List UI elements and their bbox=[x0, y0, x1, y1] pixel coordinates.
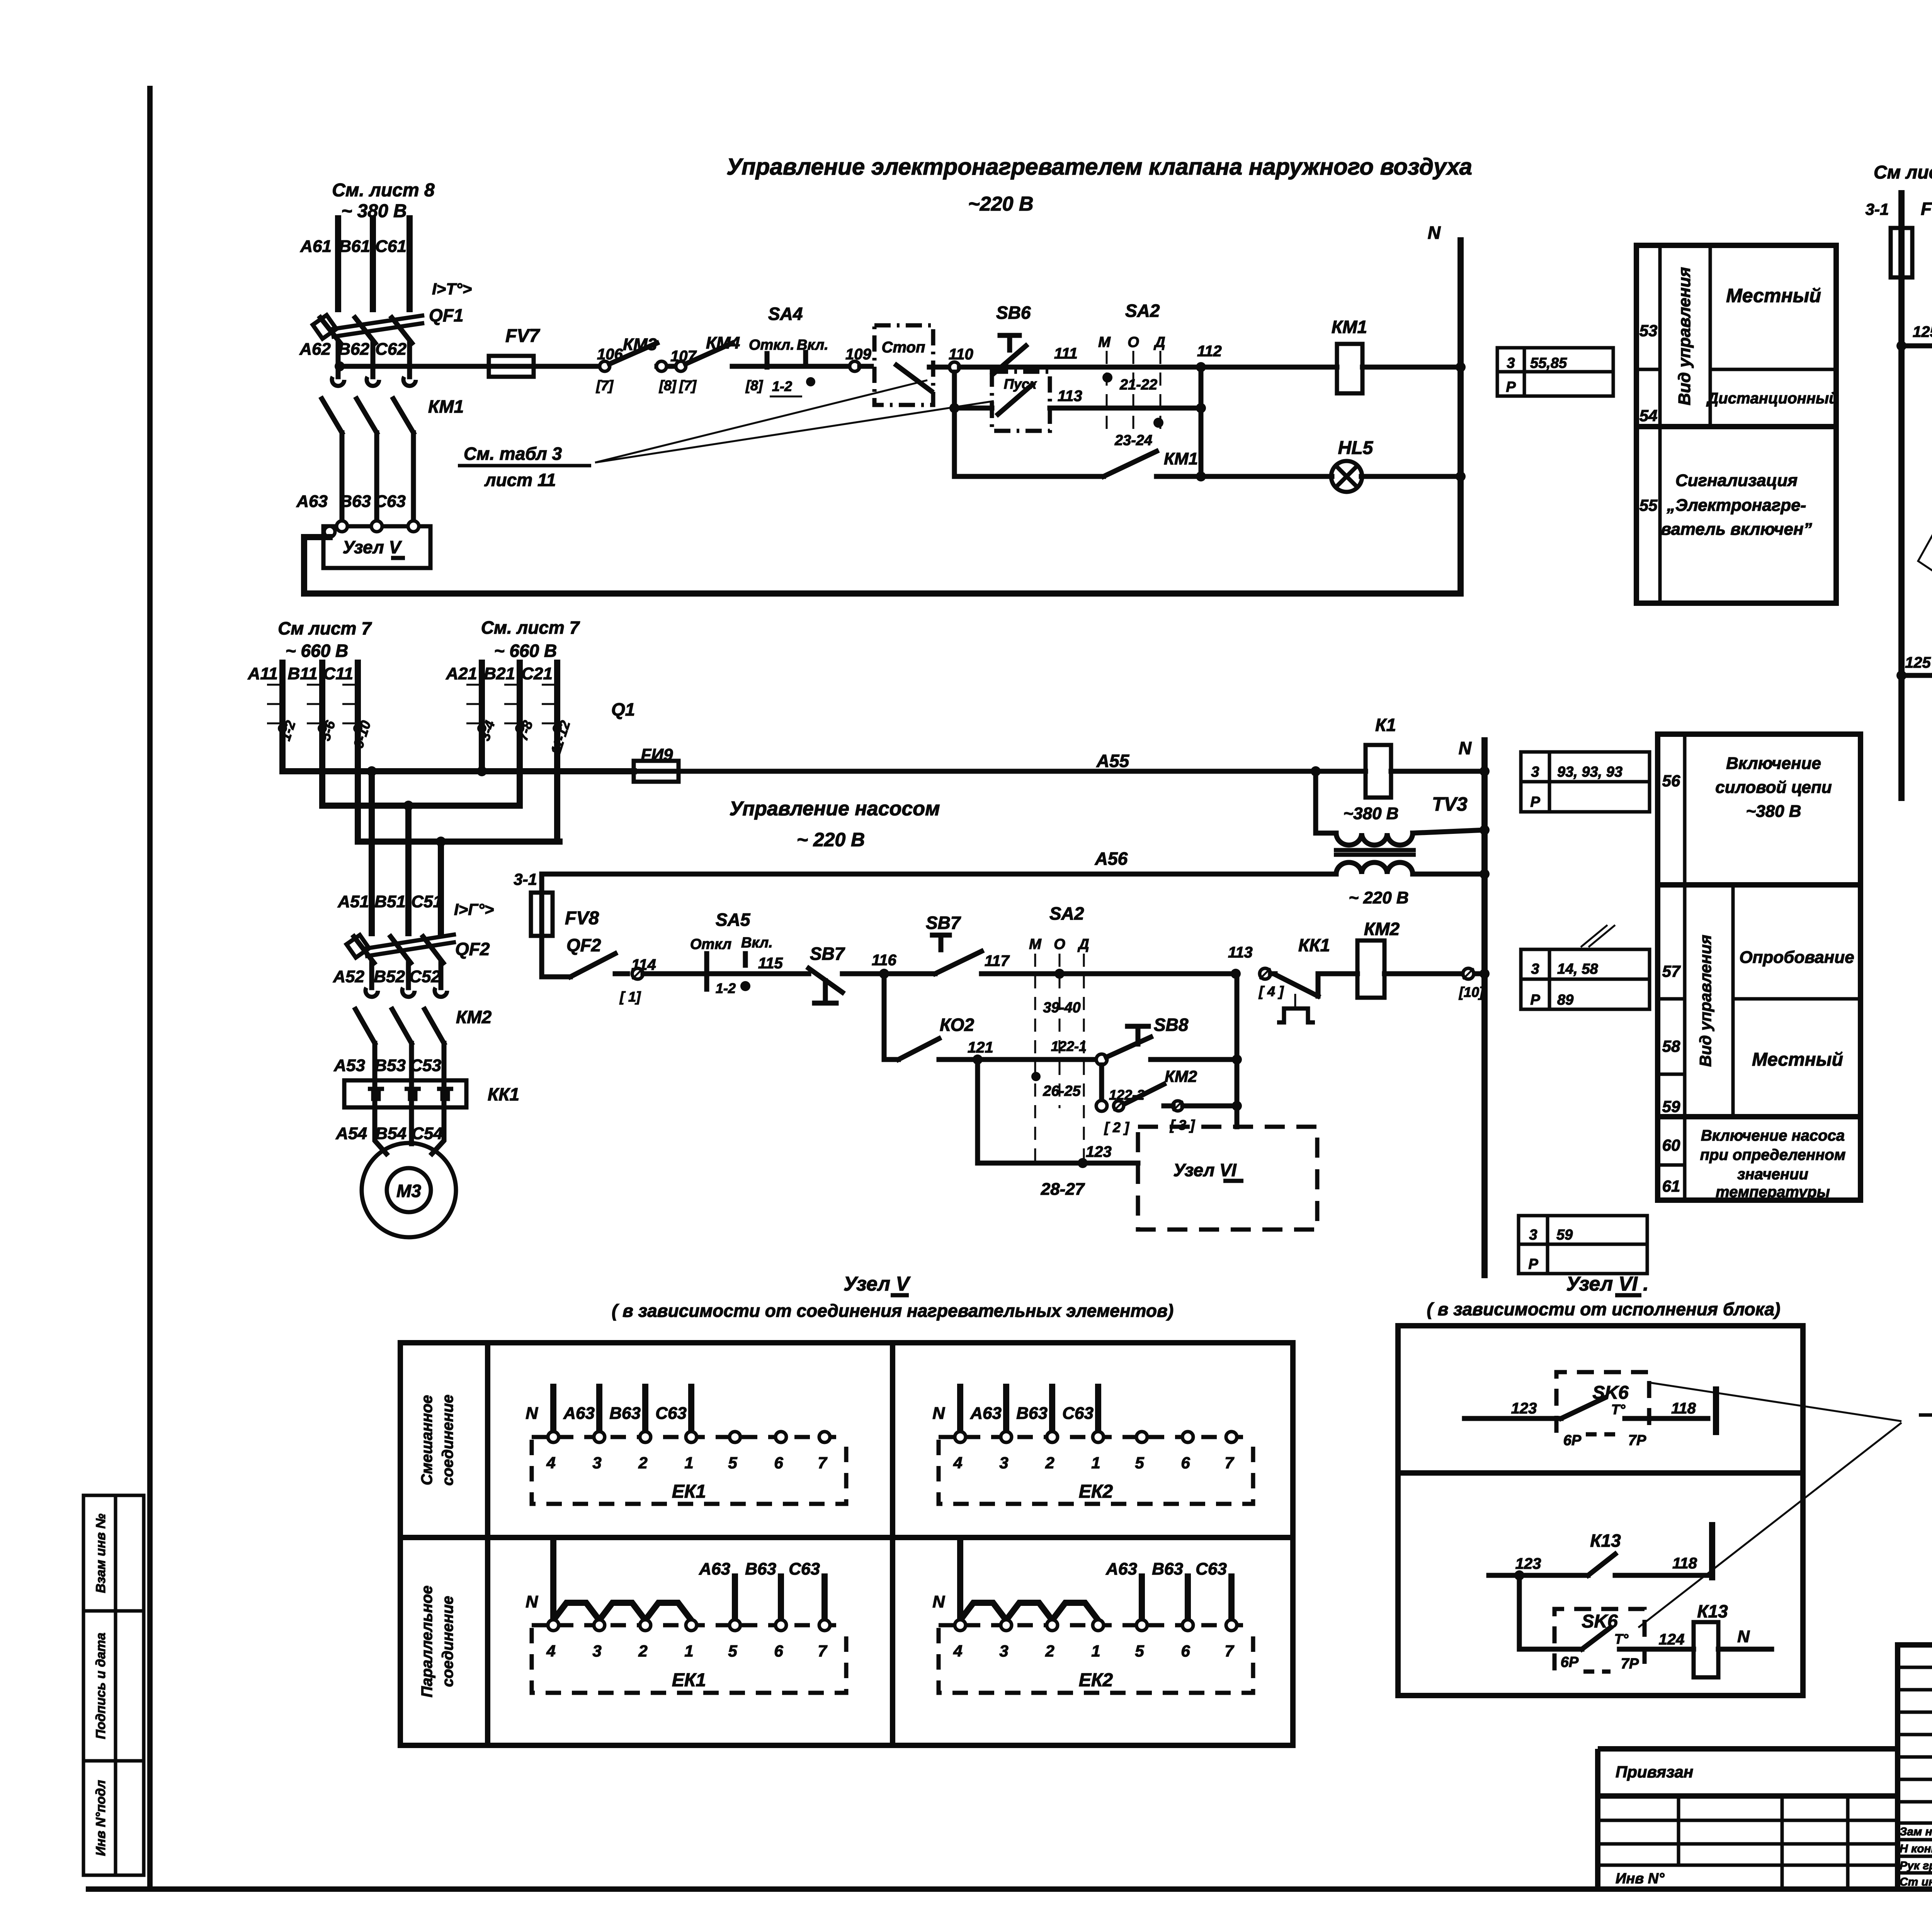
svg-text:~ 660 В: ~ 660 В bbox=[494, 641, 557, 661]
svg-text:С63: С63 bbox=[789, 1560, 820, 1578]
callout line upper bbox=[1649, 1383, 1901, 1421]
svg-text:Q1: Q1 bbox=[611, 699, 635, 719]
svg-text:118: 118 bbox=[1671, 1400, 1696, 1417]
svg-text:[ 4 ]: [ 4 ] bbox=[1259, 983, 1284, 999]
svg-text:5: 5 bbox=[728, 1454, 737, 1472]
svg-text:Р: Р bbox=[1528, 1256, 1538, 1272]
margin stamp box bbox=[83, 1495, 144, 1875]
wire 123 bbox=[975, 1060, 980, 1163]
SA2 contact 23-24 bbox=[1153, 418, 1163, 428]
svg-text:4: 4 bbox=[546, 1454, 555, 1472]
svg-text:121: 121 bbox=[968, 1039, 993, 1056]
svg-text:55: 55 bbox=[1639, 496, 1658, 514]
node 125 lower bbox=[1896, 670, 1906, 680]
svg-text:3: 3 bbox=[1531, 961, 1539, 977]
heater ЕК2 mixed terminal row bbox=[939, 1435, 1253, 1439]
svg-text:[8]: [8] bbox=[659, 378, 677, 393]
svg-text:3: 3 bbox=[999, 1454, 1008, 1472]
svg-text:КМ4: КМ4 bbox=[706, 333, 740, 352]
svg-text:КМ1: КМ1 bbox=[1332, 317, 1367, 337]
svg-text:Узел VI .: Узел VI . bbox=[1566, 1273, 1648, 1295]
svg-text:В52: В52 bbox=[374, 967, 405, 986]
Q1 pole А11 bbox=[279, 663, 286, 771]
motor M3 bbox=[375, 1107, 386, 1154]
svg-text:Откл.: Откл. bbox=[749, 337, 794, 353]
svg-text:Включение: Включение bbox=[1726, 754, 1821, 773]
svg-text:Включение насоса: Включение насоса bbox=[1701, 1127, 1845, 1144]
svg-text:3-1: 3-1 bbox=[1866, 200, 1889, 218]
feed bus right bbox=[1898, 193, 1905, 798]
lamp HL5 bbox=[1201, 474, 1332, 479]
svg-text:N: N bbox=[932, 1404, 945, 1423]
svg-text:А52: А52 bbox=[333, 967, 364, 986]
svg-text:Стоп: Стоп bbox=[882, 339, 925, 356]
svg-text:21-22: 21-22 bbox=[1119, 377, 1157, 393]
svg-text:3: 3 bbox=[999, 1642, 1008, 1660]
svg-text:В54: В54 bbox=[375, 1124, 406, 1143]
node 125 upper bbox=[1896, 341, 1906, 351]
svg-text:SA5: SA5 bbox=[716, 910, 751, 930]
svg-text:N: N bbox=[526, 1592, 538, 1611]
node V box bbox=[323, 526, 430, 568]
svg-text:Дистанционный: Дистанционный bbox=[1706, 390, 1838, 407]
svg-text:26-25: 26-25 bbox=[1043, 1083, 1081, 1099]
relay coil K1 bbox=[1366, 745, 1391, 798]
узел V table bbox=[400, 1343, 1293, 1745]
svg-text:Р: Р bbox=[1506, 379, 1516, 395]
svg-text:КМ3: КМ3 bbox=[623, 335, 657, 354]
svg-text:89: 89 bbox=[1557, 992, 1573, 1008]
svg-text:7Р: 7Р bbox=[1628, 1432, 1646, 1449]
svg-text:SB6: SB6 bbox=[996, 303, 1031, 323]
wire A56 bbox=[542, 872, 1336, 877]
svg-text:В63: В63 bbox=[340, 492, 371, 511]
svg-text:7: 7 bbox=[1225, 1454, 1234, 1472]
svg-text:2: 2 bbox=[638, 1454, 647, 1472]
title block outer bbox=[1898, 1645, 1932, 1889]
svg-text:КК1: КК1 bbox=[488, 1084, 519, 1104]
svg-text:В63: В63 bbox=[745, 1560, 776, 1578]
svg-text:SB7: SB7 bbox=[810, 944, 845, 964]
svg-text:113: 113 bbox=[1228, 944, 1253, 961]
svg-text:А62: А62 bbox=[299, 340, 331, 359]
svg-text:N: N bbox=[1737, 1627, 1750, 1646]
svg-text:QF2: QF2 bbox=[455, 939, 490, 959]
svg-text:А51: А51 bbox=[337, 892, 369, 911]
svg-text:Зам нач.отд: Зам нач.отд bbox=[1900, 1825, 1932, 1838]
SK6 upper contact bbox=[1464, 1416, 1561, 1421]
svg-text:TV3: TV3 bbox=[1432, 793, 1468, 815]
svg-text:SB8: SB8 bbox=[1154, 1015, 1189, 1035]
svg-text:[ 2 ]: [ 2 ] bbox=[1104, 1119, 1129, 1135]
svg-text:3: 3 bbox=[592, 1454, 601, 1472]
svg-text:Узел V: Узел V bbox=[844, 1273, 911, 1295]
svg-text:( в зависимости от соединени: ( в зависимости от соединения нагревател… bbox=[612, 1301, 1173, 1321]
svg-text:А63: А63 bbox=[699, 1560, 730, 1578]
svg-text:А54: А54 bbox=[335, 1124, 367, 1143]
svg-text:106: 106 bbox=[597, 346, 623, 363]
terminal circle 113 bbox=[1260, 968, 1270, 979]
svg-text:58: 58 bbox=[1662, 1037, 1680, 1055]
svg-text:А53: А53 bbox=[333, 1056, 365, 1075]
svg-text:Инв N°подл: Инв N°подл bbox=[94, 1780, 108, 1856]
svg-text:соединение: соединение bbox=[439, 1596, 456, 1687]
svg-text:2: 2 bbox=[1045, 1642, 1054, 1660]
phase bus C61 bbox=[406, 218, 413, 309]
svg-text:QF1: QF1 bbox=[429, 305, 463, 325]
svg-text:А63: А63 bbox=[563, 1404, 595, 1423]
fuse FV8 bbox=[539, 874, 544, 893]
wire A51 bbox=[369, 771, 375, 933]
svg-text:Подпись и дата: Подпись и дата bbox=[94, 1633, 108, 1739]
contact KM3 106 bbox=[600, 361, 610, 371]
svg-text:56: 56 bbox=[1662, 772, 1680, 790]
heater ЕК2 parallel N stub bbox=[957, 1542, 963, 1620]
svg-text:N: N bbox=[526, 1404, 538, 1423]
svg-text:О: О bbox=[1128, 334, 1139, 350]
svg-text:Т°: Т° bbox=[1614, 1631, 1629, 1647]
svg-text:60: 60 bbox=[1662, 1136, 1680, 1154]
heater ЕК2 parallel dashed box bbox=[939, 1628, 1253, 1693]
svg-text:55,85: 55,85 bbox=[1530, 355, 1567, 371]
svg-text:„Электронагре-: „Электронагре- bbox=[1667, 496, 1806, 515]
svg-text:116: 116 bbox=[872, 952, 897, 969]
heater ЕК2 dashed box bbox=[939, 1440, 1253, 1504]
Q1 pole В11 bbox=[319, 663, 325, 806]
svg-text:В63: В63 bbox=[1152, 1560, 1183, 1578]
svg-text:109: 109 bbox=[845, 346, 871, 363]
heater neutral return wire bbox=[304, 537, 1461, 594]
svg-text:Узел VI: Узел VI bbox=[1173, 1160, 1236, 1180]
svg-text:N: N bbox=[932, 1592, 945, 1611]
svg-text:123: 123 bbox=[1515, 1555, 1541, 1572]
svg-text:6Р: 6Р bbox=[1563, 1432, 1582, 1449]
svg-text:См. табл 3: См. табл 3 bbox=[464, 444, 562, 464]
SA4 position dot 1-2 bbox=[806, 377, 815, 386]
svg-text:Привязан: Привязан bbox=[1616, 1763, 1693, 1781]
QF2 lower terminals bbox=[369, 963, 374, 988]
svg-text:Управление насосом: Управление насосом bbox=[729, 798, 940, 820]
callout line lower bbox=[1638, 1423, 1901, 1628]
svg-text:( в зависимости от исполнени: ( в зависимости от исполнения блока) bbox=[1427, 1299, 1781, 1319]
wire A55 bbox=[679, 769, 1366, 774]
svg-text:FV10: FV10 bbox=[1921, 199, 1932, 219]
SA5 dot 1-2 bbox=[740, 981, 750, 991]
table вид управления 53-55 bbox=[1636, 245, 1836, 603]
svg-text:С52: С52 bbox=[409, 967, 440, 986]
узел VI box bbox=[1398, 1326, 1803, 1696]
svg-text:115: 115 bbox=[758, 955, 783, 972]
svg-text:А61: А61 bbox=[300, 237, 332, 256]
svg-text:~380 В: ~380 В bbox=[1343, 804, 1398, 823]
svg-text:С63: С63 bbox=[1062, 1404, 1094, 1423]
svg-text:SA2: SA2 bbox=[1125, 301, 1160, 321]
contact KM1 aux bbox=[1104, 451, 1156, 476]
svg-text:QF2: QF2 bbox=[566, 935, 601, 955]
Q1 pole С11 bbox=[355, 663, 361, 842]
svg-text:~380 В: ~380 В bbox=[1746, 802, 1801, 821]
svg-text:N: N bbox=[1459, 738, 1472, 758]
svg-text:SB7: SB7 bbox=[926, 913, 961, 933]
svg-text:Т°: Т° bbox=[1611, 1401, 1626, 1417]
svg-text:N: N bbox=[1428, 223, 1441, 243]
svg-text:7Р: 7Р bbox=[1621, 1656, 1639, 1672]
heater ЕК1 dashed box bbox=[532, 1440, 846, 1504]
node VI dashed box bbox=[1138, 1127, 1317, 1230]
svg-text:5: 5 bbox=[728, 1642, 737, 1660]
contact Объект lower bbox=[1906, 673, 1932, 678]
heater ЕК1 parallel bridges bbox=[553, 1603, 599, 1620]
svg-text:С51: С51 bbox=[411, 892, 442, 911]
svg-text:С61: С61 bbox=[375, 237, 406, 256]
Q1 pole В21 bbox=[517, 663, 523, 806]
svg-text:[10]: [10] bbox=[1459, 984, 1484, 1000]
svg-text:5: 5 bbox=[1135, 1454, 1144, 1472]
svg-text:2: 2 bbox=[1045, 1454, 1054, 1472]
svg-text:Сигнализация: Сигнализация bbox=[1675, 471, 1798, 490]
svg-text:~ 660 В: ~ 660 В bbox=[286, 641, 348, 661]
K13 row terminal bbox=[1709, 1525, 1715, 1577]
svg-text:соединение: соединение bbox=[439, 1395, 456, 1486]
stop button box Стоп bbox=[874, 325, 933, 405]
svg-text:123: 123 bbox=[1511, 1400, 1537, 1417]
svg-text:С63: С63 bbox=[374, 492, 406, 511]
svg-text:122-1: 122-1 bbox=[1051, 1038, 1087, 1054]
svg-text:123: 123 bbox=[1086, 1143, 1112, 1160]
svg-text:КО2: КО2 bbox=[940, 1015, 974, 1035]
svg-text:См лист 7: См лист 7 bbox=[278, 618, 372, 638]
svg-text:6: 6 bbox=[774, 1454, 783, 1472]
svg-text:ЕК2: ЕК2 bbox=[1079, 1481, 1113, 1502]
svg-text:2: 2 bbox=[638, 1642, 647, 1660]
svg-text:[ 1]: [ 1] bbox=[619, 989, 641, 1005]
circuit breaker QF1 bbox=[320, 318, 340, 343]
svg-text:53: 53 bbox=[1639, 321, 1658, 340]
svg-text:лист 11: лист 11 bbox=[484, 470, 556, 490]
svg-text:С54: С54 bbox=[412, 1124, 443, 1143]
svg-text:при определенном: при определенном bbox=[1700, 1146, 1846, 1163]
wire heater control feed bbox=[340, 364, 489, 369]
svg-text:117: 117 bbox=[985, 952, 1010, 969]
wire KM1 selfhold branch bbox=[954, 474, 1104, 479]
svg-text:Д: Д bbox=[1077, 936, 1089, 952]
svg-text:7: 7 bbox=[818, 1454, 827, 1472]
svg-text:Р: Р bbox=[1530, 794, 1540, 810]
svg-text:А63: А63 bbox=[296, 492, 328, 511]
wire B51 bbox=[405, 806, 412, 933]
svg-text:ЕК2: ЕК2 bbox=[1079, 1670, 1113, 1690]
svg-text:Н контр: Н контр bbox=[1900, 1842, 1932, 1855]
SK6 upper terminal bbox=[1713, 1389, 1719, 1432]
frame bottom border bbox=[86, 1886, 1932, 1892]
svg-text:В11: В11 bbox=[288, 664, 318, 683]
SK6 upper dashed box bbox=[1556, 1372, 1649, 1433]
heater ЕК1 mixed terminal row bbox=[532, 1435, 846, 1439]
start button box Пуск bbox=[952, 372, 957, 476]
svg-text:Опробование: Опробование bbox=[1739, 948, 1854, 967]
fuse FV10 bbox=[1891, 228, 1912, 277]
svg-text:93, 93, 93: 93, 93, 93 bbox=[1557, 764, 1622, 780]
address box 55,85 bbox=[1497, 348, 1613, 396]
svg-text:1: 1 bbox=[1091, 1454, 1100, 1472]
svg-text:~ 220 В: ~ 220 В bbox=[797, 829, 865, 850]
wire C51 bbox=[438, 842, 444, 933]
heater ЕК1 parallel dashed box bbox=[532, 1628, 846, 1693]
svg-text:1: 1 bbox=[1091, 1642, 1100, 1660]
box Привязан bbox=[1598, 1746, 1898, 1752]
svg-text:В53: В53 bbox=[374, 1056, 406, 1075]
svg-text:А63: А63 bbox=[970, 1404, 1002, 1423]
svg-text:Р: Р bbox=[1530, 992, 1540, 1008]
svg-text:~220 В: ~220 В bbox=[968, 193, 1033, 215]
svg-text:ватель включен”: ватель включен” bbox=[1661, 520, 1812, 539]
svg-text:118: 118 bbox=[1672, 1555, 1697, 1572]
svg-text:124: 124 bbox=[1659, 1631, 1685, 1648]
svg-text:С21: С21 bbox=[521, 664, 553, 683]
svg-text:М: М bbox=[1029, 936, 1042, 952]
svg-text:Д: Д bbox=[1153, 334, 1165, 350]
SK6 lower dashed box bbox=[1554, 1609, 1645, 1670]
svg-text:4: 4 bbox=[953, 1642, 962, 1660]
svg-text:А11: А11 bbox=[248, 664, 278, 683]
svg-text:КМ1: КМ1 bbox=[1164, 449, 1198, 468]
svg-text:FV7: FV7 bbox=[505, 326, 540, 346]
svg-text:Рук гр: Рук гр bbox=[1900, 1859, 1932, 1872]
svg-text:К1: К1 bbox=[1375, 715, 1396, 735]
svg-text:SA4: SA4 bbox=[768, 304, 803, 324]
address box 93,93,93 bbox=[1521, 752, 1650, 812]
svg-text:См. лист 8: См. лист 8 bbox=[332, 180, 435, 201]
bus phase C y2178 bbox=[358, 838, 560, 845]
svg-text:7: 7 bbox=[1225, 1642, 1234, 1660]
frame left border bbox=[147, 86, 153, 1889]
svg-text:3: 3 bbox=[1531, 764, 1539, 780]
svg-text:Местный: Местный bbox=[1752, 1049, 1843, 1070]
svg-text:А56: А56 bbox=[1095, 849, 1128, 869]
table 56-61 bbox=[1658, 734, 1861, 1200]
svg-text:Вкл.: Вкл. bbox=[797, 337, 828, 353]
svg-text:Взам инв №: Взам инв № bbox=[94, 1514, 108, 1593]
SK6 lower contact bbox=[1582, 1628, 1611, 1649]
svg-text:С63: С63 bbox=[1196, 1560, 1227, 1578]
svg-text:3-1: 3-1 bbox=[514, 870, 537, 888]
contact Объект upper bbox=[1906, 344, 1932, 349]
SA2 dot 26-25 bbox=[1031, 1072, 1041, 1081]
svg-text:3: 3 bbox=[1529, 1227, 1537, 1243]
heater ЕК1 parallel phase stubs bbox=[732, 1577, 738, 1620]
svg-text:КК1: КК1 bbox=[1298, 935, 1330, 955]
svg-text:Управление электронагревателе: Управление электронагревателем клапана н… bbox=[726, 154, 1472, 180]
wire node to SK6 lower bbox=[1519, 1575, 1582, 1649]
bus phase A y1996 bbox=[282, 768, 634, 774]
svg-text:В62: В62 bbox=[338, 340, 369, 359]
svg-text:Вид управления: Вид управления bbox=[1675, 267, 1694, 405]
svg-text:3: 3 bbox=[1507, 355, 1515, 371]
svg-text:7: 7 bbox=[818, 1642, 827, 1660]
svg-text:[8]: [8] bbox=[745, 378, 763, 393]
address box 14,58 89 bbox=[1521, 949, 1650, 1009]
svg-text:Местный: Местный bbox=[1726, 285, 1821, 306]
svg-text:В21: В21 bbox=[484, 664, 515, 683]
fuse FИ9 bbox=[634, 761, 679, 782]
svg-text:ЕК1: ЕК1 bbox=[672, 1670, 706, 1690]
svg-text:М3: М3 bbox=[396, 1181, 421, 1201]
svg-text:Узел V: Узел V bbox=[343, 537, 402, 557]
svg-text:КМ2: КМ2 bbox=[1165, 1067, 1197, 1085]
svg-text:1: 1 bbox=[684, 1454, 693, 1472]
svg-text:HL5: HL5 bbox=[1338, 438, 1374, 458]
thermal relay KK1 heaters bbox=[344, 1080, 466, 1107]
neutral bus N middle bbox=[1481, 740, 1488, 1275]
svg-text:Откл: Откл bbox=[690, 936, 731, 952]
svg-text:К13: К13 bbox=[1590, 1531, 1621, 1551]
phase bus A61 bbox=[335, 218, 341, 309]
svg-text:107: 107 bbox=[670, 348, 697, 365]
svg-text:113: 113 bbox=[1058, 388, 1082, 405]
fuse FV7 bbox=[489, 356, 534, 377]
contactor coil KM2 bbox=[1357, 940, 1384, 998]
svg-text:ЕК1: ЕК1 bbox=[672, 1481, 706, 1502]
svg-text:39-40: 39-40 bbox=[1043, 1000, 1080, 1016]
heater ЕК1 parallel terminal row bbox=[532, 1623, 846, 1628]
button SB8 122-1 bbox=[1096, 1054, 1107, 1065]
svg-text:61: 61 bbox=[1662, 1177, 1680, 1195]
svg-text:6: 6 bbox=[1181, 1454, 1190, 1472]
svg-text:Ст инж: Ст инж bbox=[1900, 1876, 1932, 1888]
svg-text:[7]: [7] bbox=[596, 378, 614, 393]
phase bus B61 bbox=[370, 218, 376, 309]
heater ЕК2 parallel phase stubs bbox=[1139, 1577, 1145, 1620]
svg-text:1: 1 bbox=[684, 1642, 693, 1660]
svg-text:О: О bbox=[1054, 936, 1065, 952]
plug 10 to N bbox=[1463, 968, 1474, 979]
contact KM4 107 108 bbox=[656, 361, 667, 371]
SA2 dot 28-27 bbox=[1078, 1158, 1088, 1168]
svg-text:См лист 3: См лист 3 bbox=[1874, 162, 1932, 183]
svg-text:КМ2: КМ2 bbox=[1364, 919, 1400, 939]
svg-text:FV8: FV8 bbox=[565, 908, 599, 929]
SA2 contact 21-22 bbox=[1102, 372, 1112, 383]
svg-text:В51: В51 bbox=[374, 892, 406, 911]
svg-text:КМ2: КМ2 bbox=[456, 1007, 492, 1027]
svg-text:Инв N°: Инв N° bbox=[1616, 1871, 1665, 1887]
svg-text:59: 59 bbox=[1556, 1227, 1573, 1243]
svg-text:1-2: 1-2 bbox=[772, 378, 792, 394]
svg-text:112: 112 bbox=[1197, 343, 1222, 360]
svg-text:3: 3 bbox=[592, 1642, 601, 1660]
SA2 dot 39-40 bbox=[1054, 969, 1065, 979]
svg-text:6Р: 6Р bbox=[1561, 1654, 1579, 1670]
svg-text:силовой цепи: силовой цепи bbox=[1715, 778, 1832, 797]
svg-text:С11: С11 bbox=[323, 664, 353, 683]
svg-text:А55: А55 bbox=[1096, 751, 1130, 771]
heater ЕК2 parallel bridges bbox=[960, 1603, 1006, 1620]
svg-text:В61: В61 bbox=[339, 237, 370, 256]
svg-text:температуры: температуры bbox=[1716, 1184, 1830, 1201]
svg-text:110: 110 bbox=[949, 346, 973, 363]
bus phase B y2085 bbox=[322, 803, 520, 809]
svg-text:С62: С62 bbox=[375, 340, 406, 359]
svg-text:FИ9: FИ9 bbox=[641, 745, 673, 764]
svg-text:6: 6 bbox=[1181, 1642, 1190, 1660]
svg-text:Вид управления: Вид управления bbox=[1696, 935, 1714, 1067]
contactor coil KM1 bbox=[1337, 344, 1362, 393]
relay coil K13 bbox=[1694, 1622, 1718, 1677]
svg-text:М: М bbox=[1098, 334, 1111, 350]
svg-text:54: 54 bbox=[1639, 406, 1658, 425]
svg-text:4: 4 bbox=[546, 1642, 555, 1660]
svg-text:14, 58: 14, 58 bbox=[1557, 961, 1599, 977]
